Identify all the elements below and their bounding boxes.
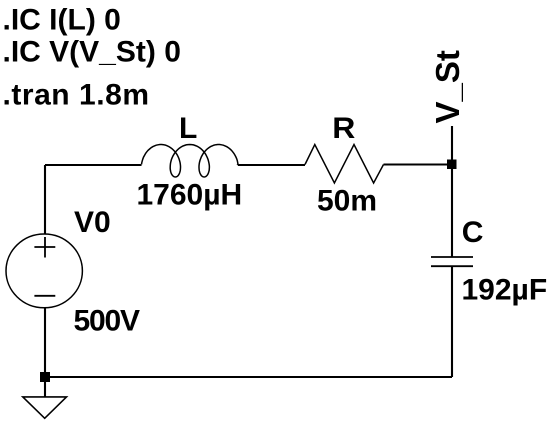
svg-text:V0: V0 [74, 206, 111, 239]
ground symbol [23, 397, 67, 418]
svg-text:1760µH: 1760µH [137, 179, 243, 212]
V0 minus sign [34, 295, 55, 297]
svg-text:.IC V(V_St) 0: .IC V(V_St) 0 [3, 36, 181, 69]
svg-text:.tran 1.8m: .tran 1.8m [3, 79, 150, 112]
wire capacitor down to bottom right corner [451, 266, 453, 377]
svg-text:R: R [332, 112, 355, 145]
wire node stub up to label V_St [451, 126, 453, 165]
wire source bottom to junction [44, 307, 46, 377]
wire between inductor and resistor [238, 163, 305, 166]
wire node down to capacitor [451, 165, 453, 258]
resistor R [305, 145, 384, 184]
capacitor C plates [431, 257, 473, 266]
svg-text:192µF: 192µF [462, 274, 548, 307]
wire junction to ground [44, 377, 46, 397]
inductor L [142, 145, 239, 178]
wire left vertical top (corner to source) [44, 165, 46, 234]
junction node V_St [447, 160, 457, 170]
wire top horizontal left segment [45, 164, 142, 166]
V0 plus sign [34, 237, 55, 258]
svg-text:500V: 500V [74, 305, 141, 338]
voltage source V0 circle [6, 234, 82, 308]
junction node bottom-left [40, 372, 50, 382]
svg-text:C: C [462, 216, 484, 249]
svg-text:L: L [179, 112, 197, 145]
svg-text:50m: 50m [317, 185, 377, 218]
wire bottom horizontal [45, 376, 452, 378]
svg-text:V_St: V_St [429, 50, 466, 123]
wire resistor to node [384, 163, 453, 165]
svg-text:.IC I(L) 0: .IC I(L) 0 [3, 4, 121, 37]
